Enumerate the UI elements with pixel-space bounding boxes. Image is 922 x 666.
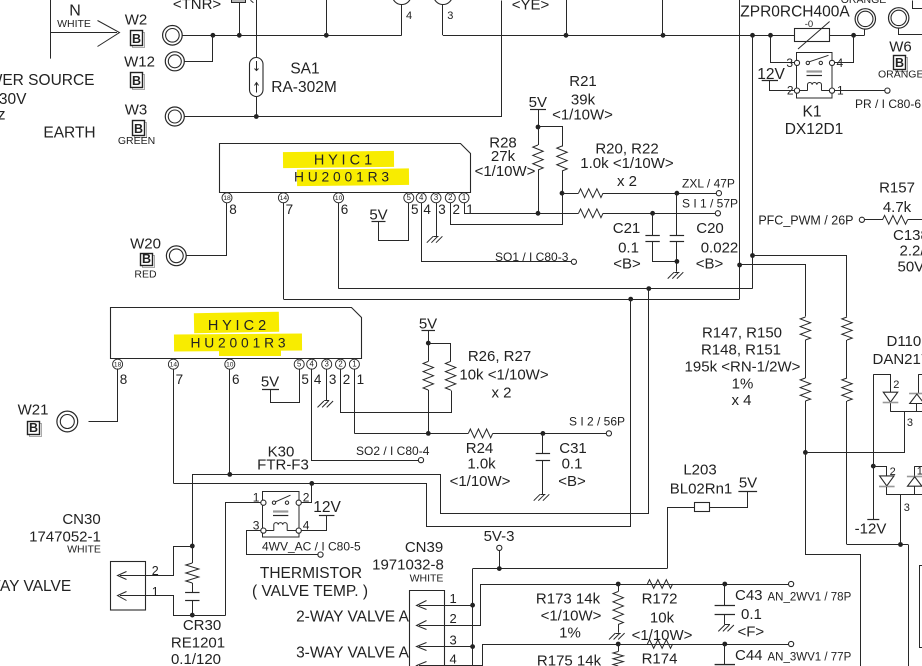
diode D111 left pin2	[880, 476, 894, 486]
svg-text:D110: D110	[887, 333, 922, 350]
relay K30 FTR-F3	[263, 492, 300, 538]
svg-text:6: 6	[341, 202, 349, 217]
resistor R175	[618, 644, 620, 652]
svg-text:18: 18	[114, 362, 122, 369]
svg-text:W2: W2	[125, 12, 148, 29]
HYIC1 pin 1	[459, 193, 469, 203]
svg-text:C43: C43	[735, 587, 763, 604]
svg-text:5V: 5V	[369, 206, 387, 223]
svg-text:3: 3	[438, 202, 446, 217]
svg-text:AN_3WV1 / 77P: AN_3WV1 / 77P	[768, 651, 852, 663]
svg-text:S I 2 / 56P: S I 2 / 56P	[569, 414, 625, 428]
HYIC2 pin 4	[307, 359, 317, 369]
node PR / I C80-6	[885, 88, 890, 93]
HYIC1 pin 14	[278, 193, 288, 203]
wire bus B drop to lower	[174, 300, 631, 527]
svg-text:DAN217: DAN217	[873, 351, 922, 368]
svg-text:1971032-8: 1971032-8	[372, 557, 444, 574]
svg-text:1: 1	[466, 202, 474, 217]
svg-text:H Y I C 2: H Y I C 2	[208, 318, 266, 334]
wire TNR lead	[239, 3, 241, 36]
svg-text:<1/10W>: <1/10W>	[541, 608, 602, 625]
wire corner down right	[908, 545, 910, 666]
junction dot CN39 pin1	[470, 603, 475, 608]
svg-text:WHITE: WHITE	[67, 544, 101, 556]
svg-text:0.1: 0.1	[618, 240, 639, 257]
node SO1 / I C80-3	[571, 259, 576, 264]
HYIC1 pin 4	[416, 193, 426, 203]
junction dot PFC branch lower	[737, 263, 742, 268]
junction dot bus B x630	[628, 297, 633, 302]
HYIC2 pin 18	[113, 359, 123, 369]
symbol B (W12)	[133, 75, 145, 90]
svg-text:C21: C21	[613, 220, 641, 237]
junction dot R173	[616, 582, 621, 587]
svg-text:W21: W21	[18, 402, 49, 419]
wire SA1 top lead	[256, 0, 258, 58]
inductor L203	[668, 492, 748, 569]
wire lower diode top	[874, 467, 887, 476]
svg-text:<YE>: <YE>	[512, 0, 550, 14]
connector pin 4 (top, cut)	[392, 0, 411, 5]
resistor R24	[468, 429, 492, 438]
wire bus A drop to lower	[230, 289, 649, 514]
node SI2 / 56P	[606, 431, 611, 436]
svg-text:R148, R151: R148, R151	[701, 342, 781, 359]
svg-text:B: B	[29, 421, 38, 435]
HYIC1 pin 5	[404, 193, 414, 203]
svg-text:BL02Rn1: BL02Rn1	[670, 480, 733, 497]
svg-text:10k <1/10W>: 10k <1/10W>	[459, 367, 548, 384]
svg-text:1: 1	[450, 591, 457, 606]
wire HYIC1 pin7 down	[283, 202, 285, 299]
wire lower diode mid	[886, 487, 888, 495]
wire EARTH line W3 to corner	[185, 1, 502, 117]
svg-text:7: 7	[286, 202, 294, 217]
svg-text:R172: R172	[642, 590, 678, 607]
node ZXL / 47P	[716, 191, 721, 196]
symbol B (W3)	[135, 123, 147, 138]
wire HYIC1 pin6 down	[338, 202, 340, 288]
svg-text:3: 3	[447, 10, 453, 22]
svg-text:8: 8	[120, 372, 128, 387]
junction dot CR30 top	[190, 544, 195, 549]
svg-text:PFC_PWM / 26P: PFC_PWM / 26P	[758, 213, 853, 227]
junction dot SA1-earth	[254, 114, 259, 119]
junction dot 5V split (R26/R27)	[426, 341, 431, 346]
wire D110 top	[874, 375, 891, 393]
svg-text:<1/10W>: <1/10W>	[552, 107, 613, 124]
svg-text:THERMISTOR: THERMISTOR	[260, 565, 362, 582]
wire CN30 pin1 branch	[146, 596, 226, 616]
wire SI2 row	[354, 433, 468, 435]
svg-text:SO2 / I C80-4: SO2 / I C80-4	[356, 444, 430, 458]
HYIC2 pin 5	[294, 359, 304, 369]
diode D111 right pin1 (cut)	[915, 466, 922, 468]
ground (C31)	[543, 494, 549, 500]
junction dot C21/C20 gnd	[675, 259, 680, 264]
svg-text:PR / I C80-6: PR / I C80-6	[855, 97, 921, 111]
CN39 pin 2 arrow	[419, 625, 445, 627]
resistor R173	[618, 584, 620, 592]
svg-text:ORANGE: ORANGE	[841, 0, 887, 6]
wire HYIC2 pin3 to ground	[326, 369, 328, 401]
svg-text:<B>: <B>	[613, 256, 641, 273]
wire W12 branch	[185, 36, 213, 62]
resistor R148	[805, 340, 807, 378]
svg-text:C31: C31	[559, 440, 587, 457]
wire 5V to R27	[429, 344, 451, 362]
ground (C43)	[728, 625, 734, 631]
svg-text:1%: 1%	[732, 376, 754, 393]
junction dot ZXL/C20	[675, 191, 680, 196]
svg-text:3: 3	[450, 632, 457, 647]
node AN_3WV1 / 77P	[789, 641, 794, 646]
junction dot C44	[722, 642, 727, 647]
wire HYIC2 pin8 to W21	[89, 369, 118, 422]
junction dot relay pin4 branch	[851, 33, 856, 38]
svg-text:CR30: CR30	[183, 617, 221, 634]
wire HYIC1 pin2 up to R21/R20 node	[451, 194, 563, 225]
capacitor C21	[652, 213, 654, 235]
svg-text:CN39: CN39	[405, 539, 443, 556]
svg-text:( VALVE TEMP. ): ( VALVE TEMP. )	[252, 583, 368, 600]
svg-text:FTR-F3: FTR-F3	[257, 456, 309, 473]
wire HYIC2 pin4 to SO2	[312, 369, 419, 461]
wire AC line pin3 to varistor ZPR	[443, 35, 794, 37]
wire HYIC2 pin2 to R27	[341, 369, 452, 413]
svg-text:RA-302M: RA-302M	[271, 79, 336, 96]
svg-text:W12: W12	[124, 54, 155, 71]
svg-text:3: 3	[329, 372, 337, 387]
junction dot C31/SI2	[541, 431, 546, 436]
svg-text:-0: -0	[805, 19, 813, 30]
wire HYIC2 pin7 down	[173, 369, 175, 484]
resistor R28	[538, 127, 540, 145]
svg-text:WHITE: WHITE	[410, 573, 444, 585]
svg-text:RED: RED	[134, 268, 157, 280]
svg-text:4: 4	[310, 360, 315, 369]
junction dot R21/R20/pin2	[560, 191, 565, 196]
wire HYIC2 pin6 down	[229, 369, 231, 475]
ground (C20/C21)	[677, 272, 683, 278]
svg-text:1: 1	[462, 193, 466, 202]
svg-text:5V-3: 5V-3	[484, 528, 515, 545]
junction dot x663	[661, 33, 666, 38]
junction dot HYIC2 pin6 join	[227, 472, 232, 477]
svg-text:x 4: x 4	[731, 392, 751, 409]
svg-text:3-WAY VALVE A: 3-WAY VALVE A	[296, 644, 410, 661]
resistor R27	[445, 361, 455, 390]
svg-text:<B>: <B>	[558, 473, 586, 490]
wire vertical x752 (to HYIC1 pin6 net)	[752, 35, 754, 288]
wire bus A to CR30	[193, 475, 230, 547]
wire HYIC2 pin1 to SI2 row	[354, 369, 356, 434]
svg-text:2: 2	[303, 491, 310, 505]
wire CN39 pin3	[445, 646, 473, 648]
svg-text:<F>: <F>	[738, 623, 765, 640]
HYIC2 pin 2	[336, 359, 346, 369]
wire K30 pin1 to CR30 bottom	[226, 503, 261, 616]
junction dot R175	[616, 642, 621, 647]
svg-text:2: 2	[343, 372, 351, 387]
svg-text:R174: R174	[642, 650, 678, 666]
HYIC2 pin 3	[322, 359, 332, 369]
diode D110 anode-left pin2	[883, 392, 897, 402]
wire K1 pin1 to PR	[835, 90, 885, 92]
wire K1 pin3 lead	[771, 36, 795, 63]
svg-text:4: 4	[419, 193, 424, 202]
wire CN39 pin4 to row2	[445, 645, 789, 666]
IC HYIC2 body	[111, 308, 362, 359]
wire top-right corner stub	[913, 1, 922, 9]
svg-text:220-230V: 220-230V	[0, 91, 27, 108]
wire vertical from top x566	[566, 0, 568, 35]
wire varistor to W-circle	[830, 35, 865, 37]
svg-text:W3: W3	[125, 102, 148, 119]
junction dot PFC branch upper	[750, 253, 755, 258]
svg-text:x 2: x 2	[617, 173, 637, 190]
wire HYIC1 pin8 to W20	[187, 203, 227, 256]
wire HYIC1 pin6 net (bus A)	[339, 288, 753, 290]
svg-text:SA1: SA1	[290, 61, 319, 78]
svg-text:C44: C44	[735, 647, 763, 664]
wire SA1 bottom lead	[256, 97, 258, 117]
resistor R172	[647, 580, 672, 589]
svg-text:CN30: CN30	[62, 511, 100, 528]
svg-text:<TNR>: <TNR>	[173, 0, 222, 13]
svg-text:1: 1	[152, 585, 159, 599]
svg-text:WHITE: WHITE	[57, 18, 91, 30]
node SO2 / I C80-4	[418, 458, 423, 463]
wire R148 to D110 pin3	[806, 412, 905, 453]
resistor R26	[428, 343, 430, 361]
varistor ZPR0RCH400A	[795, 29, 830, 42]
supply 5V (L203)	[738, 491, 757, 493]
svg-text:<1/10W>: <1/10W>	[450, 473, 511, 490]
svg-text:R26, R27: R26, R27	[468, 348, 531, 365]
HYIC2 pin 14	[168, 359, 178, 369]
svg-text:H U 2 0 0 1 R 3: H U 2 0 0 1 R 3	[294, 170, 389, 185]
resistor R174	[647, 640, 672, 649]
connector CN30	[111, 562, 146, 611]
HYIC2 pin 10	[225, 359, 235, 369]
diode D110 right pin1 (cut)	[919, 374, 922, 376]
svg-text:H U 2 0 0 1 R 3: H U 2 0 0 1 R 3	[190, 336, 285, 351]
node N power-source arrow	[50, 0, 52, 59]
svg-text:W6: W6	[889, 39, 912, 56]
svg-text:2: 2	[453, 202, 461, 217]
svg-text:R157: R157	[879, 180, 915, 197]
junction dot x566	[564, 33, 569, 38]
wire lower pin3 leg	[900, 495, 902, 545]
svg-text:3: 3	[786, 56, 793, 70]
svg-text:-12V: -12V	[855, 521, 887, 538]
highlight HYIC1 text	[283, 151, 394, 168]
svg-text:2: 2	[448, 193, 452, 202]
svg-text:4.7k: 4.7k	[883, 199, 912, 216]
svg-text:L203: L203	[683, 462, 716, 479]
svg-text:1.0k: 1.0k	[467, 456, 496, 473]
svg-text:0.1: 0.1	[562, 456, 583, 473]
svg-text:14: 14	[170, 362, 178, 369]
svg-text:5: 5	[411, 202, 419, 217]
wire K1 pin4 lead	[835, 36, 854, 63]
svg-text:RE1201: RE1201	[171, 635, 225, 652]
wire HYIC1 pin3 to ground	[436, 202, 438, 236]
capacitor C44	[724, 644, 726, 665]
junction dot 5V-3	[497, 566, 502, 571]
ground (HYIC2 pin3)	[327, 401, 333, 407]
svg-text:0.1/120: 0.1/120	[171, 651, 221, 666]
svg-text:B: B	[132, 32, 141, 46]
node 4WV_AC / I C80-5	[318, 552, 323, 557]
svg-text:K1: K1	[803, 104, 822, 121]
svg-text:EARTH: EARTH	[43, 125, 95, 142]
highlight HYIC2 text	[194, 312, 279, 333]
symbol B (W2)	[133, 33, 145, 48]
resistor R150	[842, 317, 852, 340]
node AN_2WV1 / 78P	[789, 581, 794, 586]
svg-text:1: 1	[917, 466, 922, 478]
svg-text:R175 14k: R175 14k	[537, 652, 602, 666]
svg-text:<1/10W>: <1/10W>	[475, 163, 536, 180]
svg-text:DX12D1: DX12D1	[785, 121, 844, 138]
svg-text:7: 7	[176, 372, 184, 387]
svg-text:5: 5	[301, 372, 309, 387]
svg-text:GREEN: GREEN	[118, 135, 155, 147]
svg-text:0.1: 0.1	[741, 606, 762, 623]
svg-text:10k: 10k	[650, 610, 675, 627]
svg-text:5V: 5V	[739, 474, 757, 491]
symbol B (W21)	[30, 424, 42, 437]
junction dot K30 pin2 branch	[309, 481, 314, 486]
wire circle leg	[864, 29, 866, 35]
svg-text:2-WAY VALVE A: 2-WAY VALVE A	[296, 608, 410, 625]
svg-text:B: B	[132, 74, 141, 88]
junction dot SI1/C21	[650, 211, 655, 216]
HYIC1 pin 3	[431, 193, 441, 203]
HYIC1 pin 10	[334, 193, 344, 203]
svg-text:5V: 5V	[261, 373, 279, 390]
junction dot W12 branch	[211, 33, 216, 38]
wire vertical from top x663	[662, 0, 664, 35]
wire CN39 pin2 to row1	[445, 585, 789, 626]
wire branch to R150 chain	[753, 256, 847, 317]
wire K30 pin2 drop	[302, 484, 312, 503]
junction dot x326	[324, 33, 329, 38]
wire 5V to R21	[539, 127, 563, 147]
svg-text:50/60Hz: 50/60Hz	[0, 107, 6, 124]
symbol B (W20)	[143, 256, 155, 268]
svg-text:B: B	[134, 122, 143, 136]
wire D110 mid	[890, 403, 892, 412]
svg-text:ZPR0RCH400A: ZPR0RCH400A	[740, 4, 850, 21]
svg-text:2.2/: 2.2/	[900, 243, 922, 260]
svg-text:B: B	[142, 252, 151, 266]
relay K1 DX12D1	[797, 53, 833, 99]
junction dot lower pin3	[898, 542, 903, 547]
svg-text:R147, R150: R147, R150	[702, 325, 782, 342]
svg-text:5V: 5V	[529, 94, 547, 111]
svg-text:POWER SOURCE: POWER SOURCE	[0, 72, 95, 89]
CN39 pin 1 arrow	[419, 605, 445, 607]
junction dot K1 net x752	[750, 33, 755, 38]
svg-text:3: 3	[325, 360, 329, 369]
svg-text:C138: C138	[893, 227, 922, 244]
symbol B (W6)	[896, 58, 908, 72]
HYIC2 pin 1	[349, 359, 359, 369]
IC HYIC1 body	[220, 144, 471, 193]
wire K30 pin3 to 4WV_AC	[247, 531, 319, 555]
svg-text:5: 5	[297, 360, 302, 369]
svg-text:R21: R21	[569, 73, 597, 90]
varistor TNR (cut at top)	[232, 0, 246, 3]
connector CN39	[410, 591, 445, 666]
resistor R157	[883, 215, 908, 224]
junction dot C43	[722, 582, 727, 587]
supply -12V	[867, 519, 879, 521]
ground (HYIC1 pin3)	[436, 236, 442, 242]
svg-text:2: 2	[152, 564, 159, 578]
svg-text:4-WAY VALVE: 4-WAY VALVE	[0, 578, 71, 595]
svg-text:C20: C20	[696, 220, 724, 237]
svg-text:50V: 50V	[898, 259, 922, 276]
svg-text:R173 14k: R173 14k	[536, 590, 601, 607]
CN39 pin 3 arrow	[419, 646, 445, 648]
wire 5V-3 rail down	[472, 569, 474, 666]
svg-text:4: 4	[450, 652, 457, 666]
terminal circle (orange, left)	[855, 9, 875, 29]
ground (R173)	[618, 633, 624, 639]
svg-text:x 2: x 2	[491, 385, 511, 402]
wire vertical x739 (to HYIC1 pin7 net)	[739, 0, 741, 299]
svg-text:2: 2	[890, 466, 896, 478]
junction dot R26/SI2	[426, 431, 431, 436]
svg-text:1: 1	[357, 372, 365, 387]
svg-text:W20: W20	[130, 235, 161, 252]
svg-text:SO1 / I C80-3: SO1 / I C80-3	[495, 250, 569, 264]
wire 5V-3 rail horizontal	[473, 568, 668, 570]
svg-text:2: 2	[450, 611, 457, 626]
svg-text:H Y I C 1: H Y I C 1	[314, 153, 372, 169]
junction dot TNR lead	[237, 33, 242, 38]
HYIC1 pin 18	[222, 193, 232, 203]
wire x873 from D110 corner to -12V	[873, 374, 875, 519]
CN39 pin 4 arrow	[419, 665, 445, 666]
svg-text:<B>: <B>	[696, 256, 724, 273]
junction dot CR30 bottom	[190, 613, 195, 618]
terminal W6	[889, 8, 909, 28]
wire HYIC1 pin1 to R22	[464, 202, 466, 213]
connector pin 3 (top, cut)	[434, 0, 453, 5]
wire CN30 pin2 branch	[146, 547, 193, 576]
junction dot CN39 pin3	[470, 644, 475, 649]
wire AC line from W2 to pin4 leg	[182, 35, 402, 37]
svg-text:12V: 12V	[313, 499, 341, 516]
junction dot -12V/lower diode	[871, 464, 876, 469]
wire HYIC1 pin7 net (bus B)	[284, 299, 740, 301]
resistor R22	[579, 209, 603, 218]
svg-text:2: 2	[893, 379, 899, 391]
resistor R151	[846, 340, 848, 378]
junction dot K1 pin3 branch	[768, 33, 773, 38]
capacitor C31	[542, 433, 544, 454]
svg-text:S I 1 / 57P: S I 1 / 57P	[682, 196, 738, 210]
wire R151 bottom to lower pin3	[847, 544, 908, 546]
svg-text:8: 8	[229, 202, 237, 217]
svg-text:1%: 1%	[559, 624, 581, 641]
